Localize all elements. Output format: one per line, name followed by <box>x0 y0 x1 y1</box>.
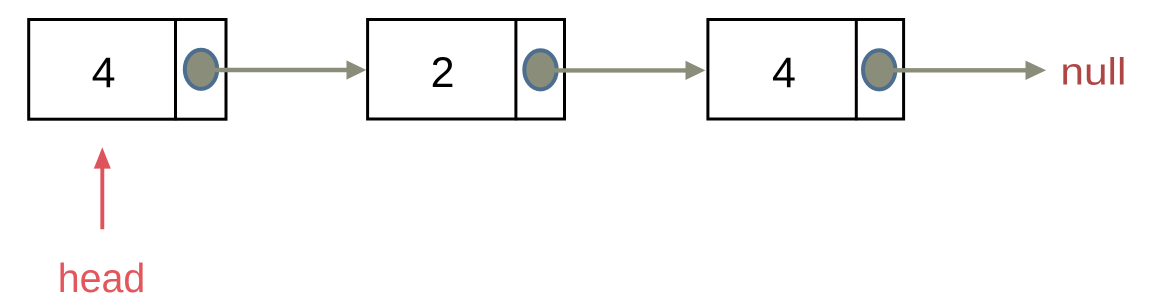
node 3 pointer circle <box>863 50 895 89</box>
arrow node3 to null head <box>1026 61 1047 80</box>
arrow node3 to null shaft <box>879 68 1026 72</box>
node 3 divider <box>855 18 858 121</box>
arrow node1 to node2 shaft <box>201 68 347 72</box>
arrow node2 to node3 shaft <box>541 68 687 72</box>
node 3 box <box>708 20 904 120</box>
node 1 divider <box>174 18 177 121</box>
arrow node2 to node3 head <box>686 61 706 80</box>
head arrow head <box>94 147 111 168</box>
node 2 box <box>368 20 565 120</box>
svg-text:head: head <box>58 255 146 301</box>
node 2 divider <box>514 18 517 121</box>
node 2 pointer circle <box>524 50 556 89</box>
svg-text:null: null <box>1060 51 1126 93</box>
svg-text:2: 2 <box>431 49 455 97</box>
svg-text:4: 4 <box>92 49 116 97</box>
svg-text:4: 4 <box>772 49 796 97</box>
head arrow shaft <box>100 166 104 229</box>
node 1 box <box>29 20 226 120</box>
node 1 pointer circle <box>185 50 217 89</box>
arrow node1 to node2 head <box>347 60 367 79</box>
